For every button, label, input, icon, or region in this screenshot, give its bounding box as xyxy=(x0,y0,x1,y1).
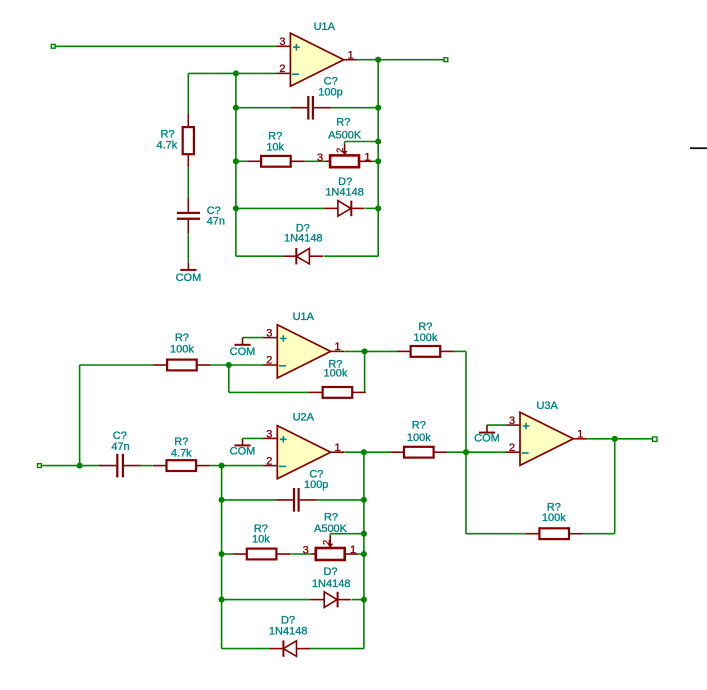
junction at (235.9,161.3) xyxy=(233,158,239,164)
resistor R? 10k (A) xyxy=(247,131,304,167)
junction at (228.8,365.0) xyxy=(226,362,232,368)
op-amp U3A xyxy=(506,400,587,465)
junction at (378.2,141.5) xyxy=(375,138,381,144)
resistor R? 4.7k (vertical) xyxy=(157,73,194,167)
junction at (221.6,499.9) xyxy=(219,497,225,503)
diode D? 1N4148 (B upper) xyxy=(310,566,350,607)
junction at (378.2,161.3) xyxy=(375,158,381,164)
wire B res row mid xyxy=(290,553,311,555)
wire U3A output xyxy=(587,438,652,440)
junction at (378.2,59.7) xyxy=(375,57,381,63)
svg-text:100k: 100k xyxy=(170,344,194,356)
ground COM (block A) xyxy=(187,263,189,270)
svg-text:1N4148: 1N4148 xyxy=(284,233,323,245)
node B input port xyxy=(38,464,42,468)
wire R100k to U3A pin2 xyxy=(447,451,506,453)
junction at (221.6,554.0) xyxy=(219,551,225,557)
wire A wiper row xyxy=(345,141,379,143)
potentiometer R? A500K (A) xyxy=(317,117,372,168)
junction at (364.6,351.4) xyxy=(362,348,368,354)
junction at (378.2,208.4) xyxy=(375,205,381,211)
svg-text:4.7k: 4.7k xyxy=(171,447,192,459)
wire A cap row left xyxy=(236,107,291,109)
svg-text:3: 3 xyxy=(279,36,285,48)
svg-text:2: 2 xyxy=(321,540,331,545)
diode D? 1N4148 (A upper) xyxy=(324,176,364,216)
wire A cap row right xyxy=(331,107,378,109)
wire A diode1 row right xyxy=(365,207,378,209)
svg-text:1N4148: 1N4148 xyxy=(312,578,351,590)
diode D? 1N4148 (B lower) xyxy=(269,615,310,657)
wire U1A feedback left xyxy=(228,365,230,392)
wire B diode1 row left xyxy=(222,599,311,601)
wire B left riser xyxy=(79,365,81,466)
svg-text:4.7k: 4.7k xyxy=(157,140,178,152)
wire R4.7k to U2A pin2 xyxy=(210,465,264,467)
wire B bottom row right xyxy=(310,648,364,650)
svg-text:3: 3 xyxy=(509,415,515,427)
resistor R? 10k (B) xyxy=(233,523,290,559)
wire U1A output xyxy=(345,350,398,352)
svg-text:1: 1 xyxy=(577,428,583,440)
svg-text:3: 3 xyxy=(266,428,272,440)
junction at (235.9,73.4) xyxy=(233,70,239,76)
resistor R? 100k (U1A out to U3A) xyxy=(397,321,454,357)
junction at (363.9,554.0) xyxy=(361,551,367,557)
capacitor C? 47n (B input) xyxy=(99,430,141,477)
wire A left rail xyxy=(235,73,237,256)
svg-text:1: 1 xyxy=(364,151,370,163)
wire A diode1 row left xyxy=(236,207,324,209)
svg-text:100p: 100p xyxy=(304,479,328,491)
svg-text:100k: 100k xyxy=(542,512,566,524)
ground COM (U2A pin3) xyxy=(230,438,264,457)
ground COM (U3A pin3) xyxy=(474,425,506,445)
svg-text:2: 2 xyxy=(266,355,272,367)
svg-text:2: 2 xyxy=(266,455,272,467)
svg-text:U2A: U2A xyxy=(293,411,315,423)
svg-text:47n: 47n xyxy=(111,441,129,453)
svg-text:1N4148: 1N4148 xyxy=(325,186,364,198)
wire B right rail xyxy=(363,452,365,648)
wire B cap row left xyxy=(222,499,277,501)
svg-text:R?: R? xyxy=(418,321,432,333)
svg-text:R?: R? xyxy=(412,419,426,431)
svg-text:3: 3 xyxy=(303,545,309,557)
junction at (363.9,533.7) xyxy=(361,531,367,537)
svg-text:1: 1 xyxy=(335,442,341,454)
wire B res row left xyxy=(222,553,233,555)
svg-text:R?: R? xyxy=(336,117,350,129)
svg-text:3: 3 xyxy=(317,152,323,164)
svg-text:2: 2 xyxy=(279,63,285,75)
wire C47n to R4.7k xyxy=(137,465,152,467)
wire A bottom row xyxy=(236,255,283,257)
wire A right rail xyxy=(377,60,379,257)
wire U3A feedback row xyxy=(582,533,615,535)
svg-text:R?: R? xyxy=(324,512,338,524)
resistor R? 4.7k (B) xyxy=(153,436,210,471)
svg-text:1: 1 xyxy=(335,341,341,353)
svg-text:D?: D? xyxy=(323,566,337,578)
svg-text:1: 1 xyxy=(348,49,354,61)
wire B cap row right xyxy=(317,499,364,501)
wire to U3A rail xyxy=(453,350,466,352)
resistor R? 100k (U1A feedback) xyxy=(309,358,366,398)
capacitor C? 47n (vertical) xyxy=(177,199,225,234)
wire A res row left xyxy=(236,160,247,162)
svg-text:R?: R? xyxy=(174,436,188,448)
junction at (221.6,599.6) xyxy=(219,597,225,603)
svg-text:2: 2 xyxy=(509,442,515,454)
junction at (614.7,438.8) xyxy=(612,436,618,442)
svg-text:U1A: U1A xyxy=(293,311,315,323)
wire U1A output xyxy=(358,59,444,61)
junction at (235.9,107.7) xyxy=(233,105,239,111)
svg-text:47n: 47n xyxy=(207,215,225,227)
junction at (378.2,107.7) xyxy=(375,105,381,111)
diode D? 1N4148 (A lower) xyxy=(283,222,323,264)
wire A input to U1A pin3 xyxy=(55,45,276,47)
wire B pot right xyxy=(358,553,364,555)
svg-text:10k: 10k xyxy=(266,141,284,153)
junction at (363.9,599.6) xyxy=(361,597,367,603)
node B output port xyxy=(653,437,657,441)
svg-text:100p: 100p xyxy=(318,86,342,98)
wire U3A feedback row left xyxy=(466,533,526,535)
svg-text:R?: R? xyxy=(160,128,174,140)
capacitor C? 100p (B) xyxy=(276,469,328,512)
node A output port xyxy=(444,58,448,62)
resistor R? 100k (U2A out to U3A) xyxy=(390,419,447,457)
capacitor C? 100p (A) xyxy=(290,75,342,119)
wire U2A output xyxy=(345,451,391,453)
svg-text:U3A: U3A xyxy=(536,400,558,412)
potentiometer R? A500K (B) xyxy=(303,512,358,561)
svg-text:1N4148: 1N4148 xyxy=(269,626,308,638)
sheet border tick (right edge) xyxy=(690,147,707,149)
svg-text:100k: 100k xyxy=(407,432,431,444)
wire B left rail xyxy=(221,466,223,649)
wire B input row xyxy=(41,465,101,467)
wire A bottom row right xyxy=(324,255,378,257)
wire C47n to COM xyxy=(187,233,189,263)
svg-text:100k: 100k xyxy=(413,332,437,344)
wire B upper branch xyxy=(80,364,154,366)
resistor R? 100k (input of U1A) xyxy=(153,332,210,371)
svg-text:10k: 10k xyxy=(252,534,270,546)
wire A res row mid xyxy=(305,160,326,162)
svg-text:COM: COM xyxy=(176,272,202,284)
junction at (363.9,452.2) xyxy=(361,449,367,455)
wire R4.7k to C47n xyxy=(187,167,189,198)
svg-text:100k: 100k xyxy=(323,367,347,379)
svg-text:1: 1 xyxy=(350,544,356,556)
svg-text:R?: R? xyxy=(175,332,189,344)
resistor R? 100k (U3A feedback) xyxy=(526,501,583,539)
wire U1A feedback right riser xyxy=(364,351,366,392)
wire B bottom row xyxy=(222,648,270,650)
svg-text:U1A: U1A xyxy=(314,21,336,33)
junction at (363.9,499.9) xyxy=(361,497,367,503)
ground COM (U1A pin3) xyxy=(230,338,264,358)
op-amp U2A xyxy=(263,411,344,478)
junction at (466.0,452.2) xyxy=(463,449,469,455)
svg-text:2: 2 xyxy=(335,148,345,153)
wire R100k to U1A pin2 xyxy=(210,364,264,366)
op-amp U1A xyxy=(263,311,344,378)
wire B wiper row xyxy=(330,533,364,535)
op-amp U1A xyxy=(276,21,357,86)
svg-text:3: 3 xyxy=(266,328,272,340)
svg-text:A500K: A500K xyxy=(328,129,362,141)
wire A pot right xyxy=(372,160,378,162)
wire B diode1 row right xyxy=(352,599,364,601)
wire U3A input rail xyxy=(465,351,467,533)
wire A pin2 row xyxy=(188,72,276,74)
node A input port xyxy=(51,44,55,48)
junction at (221.6,465.6) xyxy=(219,463,225,469)
wire U3A feedback riser xyxy=(614,439,616,534)
svg-text:COM: COM xyxy=(474,433,500,445)
svg-text:COM: COM xyxy=(230,446,256,458)
junction at (235.9,208.4) xyxy=(233,205,239,211)
svg-text:COM: COM xyxy=(230,346,256,358)
junction at (79.6,465.6) xyxy=(77,463,83,469)
